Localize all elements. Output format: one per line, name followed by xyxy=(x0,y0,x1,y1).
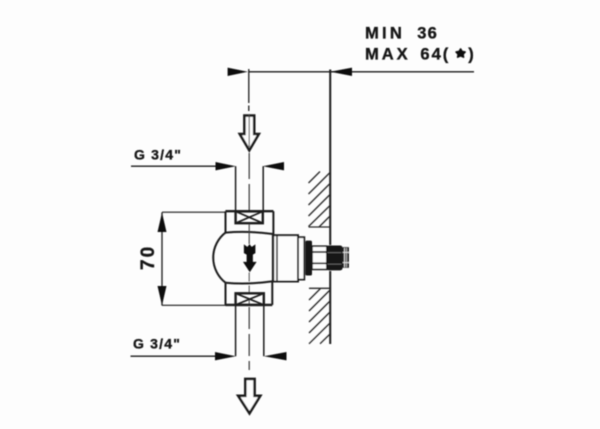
svg-text:G 3/4": G 3/4" xyxy=(134,146,182,162)
svg-text:MIN: MIN xyxy=(365,25,405,43)
svg-text:): ) xyxy=(468,46,474,64)
svg-text:MAX: MAX xyxy=(365,46,411,64)
svg-text:36: 36 xyxy=(417,25,438,43)
svg-text:70: 70 xyxy=(138,245,159,270)
svg-text:G 3/4": G 3/4" xyxy=(133,336,181,352)
svg-text:64(: 64( xyxy=(420,46,450,64)
